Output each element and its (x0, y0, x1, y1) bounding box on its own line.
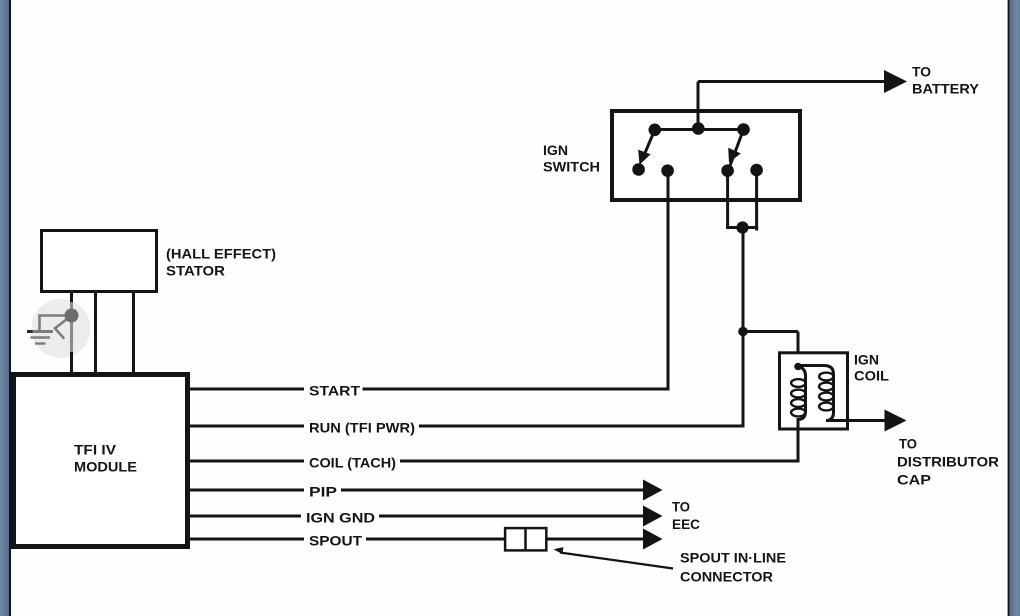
ground strap diagonal (55, 316, 72, 339)
IGN switch box S1 (612, 111, 800, 200)
connector pointer arrowhead (554, 547, 564, 554)
svg-text:STATOR: STATOR (166, 263, 225, 279)
wire IGN GND right seg (379, 515, 645, 518)
wire coil HT output (826, 419, 886, 422)
wire PIP left seg (188, 489, 304, 492)
svg-text:START: START (309, 383, 360, 399)
switch lever left (642, 130, 655, 160)
svg-text:CONNECTOR: CONNECTOR (680, 569, 773, 585)
ground wire gray overlay (70, 302, 73, 352)
ground symbol bars (27, 330, 53, 333)
junction dot run (736, 221, 748, 233)
stator box (Hall Effect Stator) (42, 231, 157, 292)
wire COIL right seg (400, 460, 800, 463)
switch contact dot F (721, 164, 734, 177)
wire RUN left seg (188, 425, 304, 428)
svg-text:MODULE: MODULE (74, 459, 137, 475)
junction dot coil tap (738, 327, 748, 337)
svg-text:COIL (TACH): COIL (TACH) (309, 455, 396, 471)
svg-text:TO: TO (672, 499, 690, 515)
ignition coil box T1 (780, 353, 848, 429)
svg-text:IGN: IGN (543, 142, 568, 158)
svg-text:RUN (TFI PWR): RUN (TFI PWR) (309, 420, 415, 436)
svg-text:TO: TO (899, 436, 917, 452)
coil primary left core (798, 367, 806, 462)
spout in-line connector J1 (505, 528, 546, 550)
wire battery riser (697, 82, 700, 130)
svg-text:CAP: CAP (897, 472, 931, 488)
switch contact dot (start) (632, 163, 645, 176)
switch contact dot E (661, 164, 674, 177)
arrow to battery (884, 70, 907, 93)
svg-text:SWITCH: SWITCH (543, 159, 600, 175)
wire START left seg (188, 388, 304, 391)
wire stator pin2 to module (94, 293, 97, 372)
svg-text:TFI IV: TFI IV (74, 442, 117, 458)
coil primary winding loops (791, 379, 805, 387)
svg-text:DISTRIBUTOR: DISTRIBUTOR (897, 454, 999, 470)
wire IGN GND left seg (188, 515, 301, 518)
connector pointer line (560, 553, 673, 569)
svg-text:SPOUT: SPOUT (309, 533, 362, 549)
wire SPOUT mid seg (366, 538, 507, 541)
wire stator pin1 to module (70, 293, 73, 372)
switch node B1 dot (649, 124, 662, 137)
svg-text:SPOUT IN·LINE: SPOUT IN·LINE (680, 550, 786, 566)
wire stator pin3 to module (132, 293, 135, 372)
svg-text:(HALL EFFECT): (HALL EFFECT) (166, 246, 276, 262)
TFI IV module box U2 (14, 375, 188, 547)
ground elbow lead (40, 316, 69, 331)
switch contact dot G (750, 164, 763, 177)
wire coil tap horizontal (743, 330, 798, 333)
wire START right seg (363, 388, 670, 391)
svg-text:EEC: EEC (672, 516, 700, 532)
svg-text:TO: TO (912, 64, 931, 80)
svg-text:PIP: PIP (309, 484, 337, 500)
left margin strip (0, 0, 9, 616)
wire run drop G (755, 170, 758, 230)
coil internal node dot (794, 363, 802, 371)
svg-text:BATTERY: BATTERY (912, 81, 980, 97)
coil secondary winding loops (819, 373, 833, 381)
svg-text:IGN GND: IGN GND (306, 510, 375, 526)
switch node B3 dot (737, 123, 750, 136)
switch bus wire (655, 128, 744, 131)
svg-text:COIL: COIL (854, 368, 889, 384)
arrow to distributor cap (885, 410, 907, 432)
wire coil feed drop (797, 332, 800, 367)
switch node B2 dot (battery feed) (692, 122, 705, 135)
wire SPOUT right seg (546, 538, 645, 541)
wire run riser (742, 228, 745, 427)
switch lever right (730, 130, 744, 168)
wire to battery (698, 80, 886, 83)
wire run U bottom (726, 226, 758, 229)
wire run drop F (726, 171, 729, 228)
wire start drop (667, 171, 670, 389)
wire SPOUT left seg (188, 538, 304, 541)
wire PIP right seg (341, 489, 645, 492)
right margin strip (1008, 0, 1010, 616)
wire COIL left seg (188, 460, 304, 463)
ground junction dot (65, 309, 79, 323)
svg-text:IGN: IGN (854, 352, 879, 368)
ground halo circle (32, 299, 91, 358)
arrow PIP to EEC (643, 480, 663, 501)
coil primary core link (798, 366, 834, 421)
arrow SPOUT to EEC (643, 529, 663, 550)
wire RUN right seg (419, 425, 745, 428)
arrow IGN GND to EEC (643, 506, 663, 527)
